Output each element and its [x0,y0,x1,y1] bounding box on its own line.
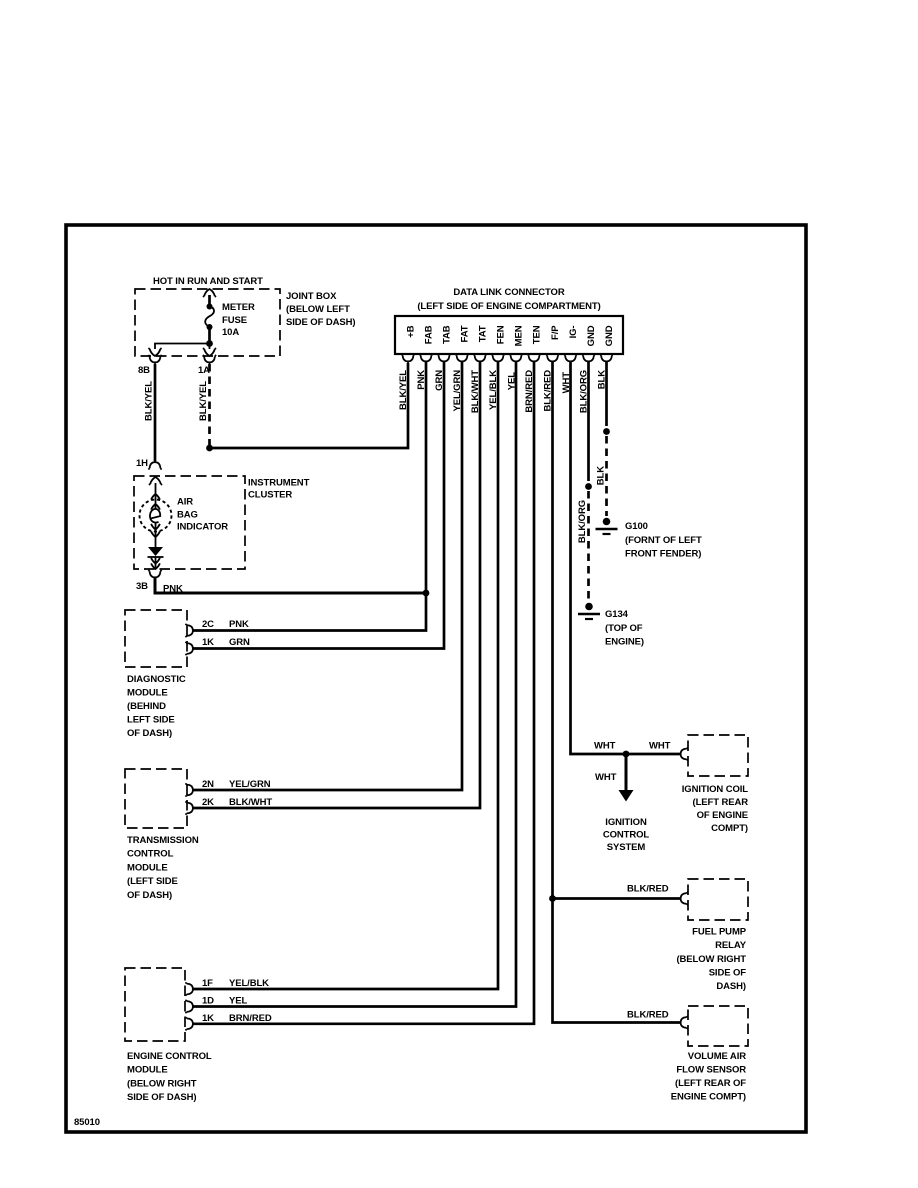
svg-text:LEFT SIDE: LEFT SIDE [127,715,175,726]
svg-text:IG-: IG- [568,326,579,339]
connector cup DLC pin TAT [473,354,486,364]
svg-text:OF ENGINE: OF ENGINE [697,810,748,821]
svg-text:(LEFT SIDE OF ENGINE COMPARTME: (LEFT SIDE OF ENGINE COMPARTMENT) [417,301,600,312]
svg-text:BLK/ORG: BLK/ORG [577,500,588,543]
node 1A to +B junction [206,445,213,452]
svg-text:SIDE OF DASH): SIDE OF DASH) [127,1092,196,1103]
arrow to 8B [148,348,161,356]
svg-text:ENGINE CONTROL: ENGINE CONTROL [127,1051,212,1062]
diode [148,547,163,556]
connector 2C [185,624,195,637]
svg-text:FAT: FAT [460,325,471,342]
svg-text:IGNITION COIL: IGNITION COIL [682,784,749,795]
svg-text:2N: 2N [202,779,214,790]
svg-text:BLK/YEL: BLK/YEL [198,381,209,421]
instrument cluster box [134,476,245,569]
svg-text:1K: 1K [202,637,214,648]
connector at ignition coil [678,747,688,760]
wire junction to 8B branch [155,344,210,350]
svg-text:(LEFT SIDE: (LEFT SIDE [127,876,178,887]
volume air flow sensor box [688,1006,748,1046]
wire to indicator [155,483,157,509]
svg-text:+B: +B [406,325,417,337]
svg-text:BRN/RED: BRN/RED [229,1013,272,1024]
connector 1K [185,642,195,655]
connector cup DLC pin TEN [527,354,540,364]
svg-text:(BELOW LEFT: (BELOW LEFT [286,304,350,315]
connector at volume air flow sensor [678,1016,688,1029]
svg-text:TRANSMISSION: TRANSMISSION [127,835,199,846]
node WHT junction [623,751,630,758]
svg-text:10A: 10A [222,327,239,338]
svg-text:GRN: GRN [229,637,250,648]
connector 2K [185,801,195,814]
svg-text:1D: 1D [202,996,214,1007]
svg-text:OF DASH): OF DASH) [127,890,172,901]
connector cup DLC pin GND2 [600,354,613,364]
svg-text:MODULE: MODULE [127,1065,168,1076]
svg-text:BLK/RED: BLK/RED [627,884,669,895]
svg-text:(BELOW RIGHT: (BELOW RIGHT [676,954,746,965]
svg-text:FAB: FAB [424,325,435,344]
connector 1K [185,1017,195,1030]
wire IG- WHT [571,362,681,754]
fuse feed arrow [203,289,216,297]
svg-text:BLK/WHT: BLK/WHT [229,797,272,808]
svg-text:PNK: PNK [229,619,249,630]
diagnostic module box [125,610,187,667]
svg-text:(TOP OF: (TOP OF [605,623,643,634]
connector at fuel pump relay [678,892,688,905]
wire TAT BLK/WHT [194,362,481,808]
svg-text:FEN: FEN [496,325,507,344]
fuse F1 METER FUSE 10A [207,304,213,310]
svg-text:YEL/GRN: YEL/GRN [229,779,271,790]
wire fuse to junction [208,327,211,344]
wire 1A BLK/YEL dashed [208,364,211,446]
wire F/P BLK/RED [553,362,681,1023]
svg-text:SIDE OF: SIDE OF [709,968,747,979]
svg-text:COMPT): COMPT) [711,823,748,834]
wire bulb to diode [155,523,157,547]
svg-text:1K: 1K [202,1013,214,1024]
svg-text:TEN: TEN [532,325,543,344]
wire TEN BRN/RED [194,362,535,1024]
svg-text:WHT: WHT [595,772,617,783]
svg-text:SYSTEM: SYSTEM [607,842,646,853]
svg-text:3B: 3B [136,581,148,592]
connector cup DLC pin +B [401,354,414,364]
wire FEN YEL/BLK [194,362,499,989]
svg-text:INDICATOR: INDICATOR [177,522,228,533]
svg-text:BAG: BAG [177,510,198,521]
connector 1D [185,1000,195,1013]
svg-text:FUEL PUMP: FUEL PUMP [692,927,747,938]
svg-text:TAB: TAB [442,325,453,344]
svg-text:INSTRUMENT: INSTRUMENT [248,478,310,489]
wire [208,295,211,306]
node PNK junction [423,590,430,597]
wire junction to DLC +B [210,363,409,448]
svg-text:BLK/YEL: BLK/YEL [144,381,155,421]
svg-text:FRONT FENDER): FRONT FENDER) [625,549,701,560]
svg-text:G100: G100 [625,521,648,532]
transmission control module box [125,769,187,828]
node F/P fuel pump junction [549,895,556,902]
connector cup DLC pin F/P [546,354,559,364]
svg-text:BLK/RED: BLK/RED [627,1010,669,1021]
border frame [66,225,806,1132]
svg-text:BLK/YEL: BLK/YEL [398,370,409,410]
svg-text:BLK: BLK [596,466,607,485]
svg-text:GND: GND [586,325,597,346]
connector cup DLC pin GND1 [582,354,595,364]
arrow to 1A [203,348,216,356]
svg-text:WHT: WHT [649,741,671,752]
connector 8B [148,355,161,365]
lamp AIR BAG INDICATOR [140,500,172,532]
svg-text:CONTROL: CONTROL [603,830,650,841]
ground G100 [596,518,618,534]
engine control module box [125,968,185,1041]
node fuse output junction [206,340,213,347]
wire 8B BLK/YEL [154,364,157,461]
ignition coil box [688,735,748,776]
svg-text:(BELOW RIGHT: (BELOW RIGHT [127,1078,197,1089]
svg-text:HOT IN RUN AND START: HOT IN RUN AND START [153,276,263,287]
svg-text:1H: 1H [136,458,148,469]
svg-text:2C: 2C [202,619,214,630]
connector cup DLC pin FEN [491,354,504,364]
wire FAB PNK [194,362,427,631]
svg-text:(BEHIND: (BEHIND [127,701,166,712]
svg-text:MEN: MEN [514,325,525,346]
fuel pump relay box [688,879,748,920]
svg-text:2K: 2K [202,797,214,808]
node BLK splice [603,428,610,435]
wire GND BLK solid [605,362,608,426]
svg-text:FUSE: FUSE [222,315,247,326]
svg-text:ENGINE COMPT): ENGINE COMPT) [671,1092,746,1103]
wire BLK dashed to G100 [605,436,608,516]
wire MEN YEL [194,362,517,1007]
joint box [135,289,280,356]
svg-text:RELAY: RELAY [715,940,747,951]
connector cup DLC pin TAB [437,354,450,364]
svg-text:YEL/BLK: YEL/BLK [229,978,269,989]
svg-text:IGNITION: IGNITION [605,817,647,828]
connector 1F [185,982,195,995]
wire GND BLK/ORG solid [587,362,590,481]
svg-text:OF DASH): OF DASH) [127,728,172,739]
connector DLC box [395,316,623,354]
svg-text:8B: 8B [138,365,150,376]
node BLK/ORG splice [585,483,592,490]
svg-text:(FORNT OF LEFT: (FORNT OF LEFT [625,535,702,546]
svg-text:SIDE OF DASH): SIDE OF DASH) [286,317,355,328]
svg-text:FLOW SENSOR: FLOW SENSOR [676,1065,746,1076]
svg-text:ENGINE): ENGINE) [605,637,644,648]
wire TAB GRN [194,362,445,649]
connector 1A [203,355,216,365]
connector 3B [148,570,161,580]
svg-text:DIAGNOSTIC: DIAGNOSTIC [127,674,186,685]
svg-text:F/P: F/P [550,325,561,340]
chevron into bulb [151,494,160,500]
svg-text:(LEFT REAR: (LEFT REAR [693,797,749,808]
svg-text:AIR: AIR [177,497,193,508]
connector cup DLC pin FAT [455,354,468,364]
ground G134 [578,603,600,619]
arrow into cluster [149,477,162,485]
wire FAT YEL/GRN [194,362,463,790]
connector cup DLC pin IG- [564,354,577,364]
svg-text:DASH): DASH) [716,981,746,992]
svg-text:1F: 1F [202,978,213,989]
svg-text:CLUSTER: CLUSTER [248,490,292,501]
svg-text:MODULE: MODULE [127,688,168,699]
svg-text:METER: METER [222,302,255,313]
svg-text:YEL: YEL [229,996,247,1007]
wire diode to 3B [155,557,157,568]
svg-text:GND: GND [604,325,615,346]
svg-text:JOINT BOX: JOINT BOX [286,291,337,302]
wire to fuel pump relay [553,897,681,900]
svg-text:(LEFT REAR OF: (LEFT REAR OF [675,1078,746,1089]
connector cup DLC pin FAB [419,354,432,364]
svg-text:G134: G134 [605,609,629,620]
svg-text:DATA LINK CONNECTOR: DATA LINK CONNECTOR [453,287,564,298]
svg-text:VOLUME AIR: VOLUME AIR [688,1051,747,1062]
connector 2N [185,783,195,796]
arrow to ignition control system [619,790,634,802]
svg-text:CONTROL: CONTROL [127,849,174,860]
wire BLK/ORG dashed to G134 [587,491,590,601]
svg-text:85010: 85010 [74,1117,100,1128]
connector cup DLC pin MEN [509,354,522,364]
svg-text:MODULE: MODULE [127,862,168,873]
svg-text:WHT: WHT [594,741,616,752]
svg-text:TAT: TAT [478,325,489,342]
